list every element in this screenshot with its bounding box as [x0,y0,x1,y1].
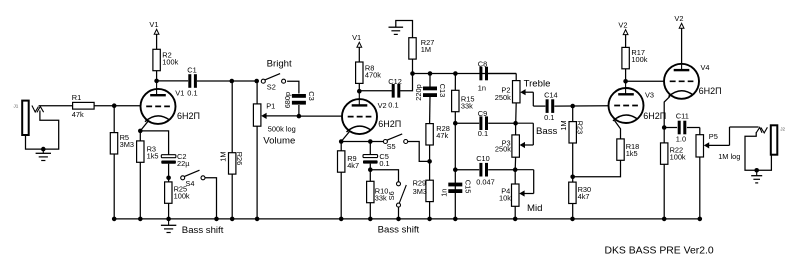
svg-text:680p: 680p [283,92,292,108]
junction C10 left node [453,167,458,172]
wire R18 to R30 node [573,160,621,177]
svg-text:S5: S5 [387,142,396,151]
resistor R22 [661,143,686,164]
svg-text:V1: V1 [352,33,361,42]
potentiometer P2 [495,81,534,107]
svg-text:R29: R29 [413,178,427,187]
svg-text:Bass shift: Bass shift [378,225,420,236]
wire P4 bottom to bus [514,206,516,219]
svg-text:C14: C14 [544,91,558,100]
junction P3 top node [513,121,518,126]
svg-text:250k: 250k [495,93,511,102]
junction P1 bus [255,217,260,222]
wire C13 to R28 [429,96,431,123]
svg-text:C9: C9 [478,109,487,118]
junction S5 tap node [427,159,432,164]
wire C9 to P3 node [488,122,515,124]
wire S4 to bus [205,178,217,219]
svg-text:220p: 220p [414,84,423,100]
svg-text:250k: 250k [495,145,511,154]
junction C5 top node [368,139,373,144]
resistor R29 [413,178,434,201]
junction S4 bus [214,217,219,222]
svg-text:0.1: 0.1 [544,113,554,122]
resistor R25 [165,182,190,203]
triode V4 [664,63,722,128]
svg-text:V1: V1 [149,20,158,29]
junction P4 bus [513,217,518,222]
power V2 supply for V4 [674,14,684,28]
wire C8 to P2 [488,73,516,75]
capacitor C1 [187,65,197,97]
wire V3 plate lead [625,81,627,94]
connector J2 jack [756,125,785,154]
svg-text:S2: S2 [267,83,276,92]
wire P3 wiper loop [516,122,534,124]
junction R29 bus [427,217,432,222]
wire C14 to V3 grid [554,105,608,107]
junction grid node V1 [112,103,117,108]
switch S6 [387,182,406,207]
resistor R18 [617,139,639,160]
svg-text:0.1: 0.1 [388,100,398,109]
svg-text:0.1: 0.1 [187,88,197,97]
svg-text:3M3: 3M3 [413,187,427,196]
junction J2 ground node [754,168,759,173]
label Bright [267,58,292,69]
wire V4 plate lead [681,64,683,70]
triode V3 [609,88,667,139]
resistor R26 1M [219,151,245,174]
svg-text:22µ: 22µ [177,159,190,168]
wire R9 branch [340,142,342,220]
wire P4 top stub [514,170,516,184]
wire plate node to C1 [157,80,189,82]
resistor R30 [569,182,591,203]
wire wiper node to V2 grid [299,115,342,117]
label title [605,246,714,257]
svg-text:0.1: 0.1 [478,129,488,138]
capacitor C12 [388,77,402,110]
potentiometer P3 [495,123,533,157]
resistor R27 [409,38,435,59]
resistor R3 [137,141,159,162]
resistor R28 [426,124,450,145]
svg-text:1k5: 1k5 [147,152,159,161]
wire R28 to bus via R29 [429,145,431,219]
junction rail node C13 [428,71,433,76]
svg-text:C12: C12 [388,77,402,86]
wire ground bus [114,218,700,220]
junction C15 bus [453,217,458,222]
svg-text:1k5: 1k5 [626,149,638,158]
wire P3 to P4 node [514,157,516,170]
wire S2 to C3 [287,81,299,93]
svg-text:Bass shift: Bass shift [182,225,224,236]
svg-text:1n: 1n [439,189,448,197]
ground main ground [161,225,176,232]
wire P5 wiper to J2 [730,126,759,128]
wire C3 to wiper node [298,105,300,116]
svg-text:DKS BASS PRE Ver2.0: DKS BASS PRE Ver2.0 [605,246,714,257]
wire stub [620,138,622,140]
svg-text:V4: V4 [701,63,710,72]
wire R27 to ground [396,21,413,38]
svg-text:500k log: 500k log [268,124,296,133]
resistor R10 [367,181,389,202]
wire R17 to V3 plate [625,69,627,82]
svg-text:C1: C1 [187,65,196,74]
connector J1 jack [14,101,44,135]
svg-text:1.0: 1.0 [676,135,686,144]
svg-text:V2: V2 [618,21,627,30]
capacitor C14 [544,91,558,123]
junction J1 ground node [41,147,46,152]
capacitor C13 220p [414,84,447,101]
wire R1 to V1 grid [94,105,141,107]
potentiometer P5 [0,0,730,157]
label Treble [524,79,551,90]
junction V3 grid node [570,104,575,109]
wire C11 to P5 [687,127,700,129]
junction V2 cathode node [339,139,344,144]
svg-text:Volume: Volume [263,136,295,147]
svg-text:1M: 1M [219,151,228,161]
wire V2 plate lead [358,91,360,105]
junction R30 top node [570,175,575,180]
svg-text:V3: V3 [645,91,654,100]
junction S6 bus [396,217,401,222]
wire rail to C9 [455,122,479,124]
junction rail node R15 [453,71,458,76]
svg-text:4k7: 4k7 [347,161,359,170]
resistor R17 [622,47,648,68]
wire C12 to top rail [400,74,412,91]
wire J1 tip to R1 [39,105,73,107]
ground R27 ground [389,27,404,34]
label Mid [527,203,542,214]
wire J1 ground stub [42,149,44,153]
wire P5 top stub [699,128,701,135]
wire supply to V4 plate [681,28,683,64]
label P5 [709,132,718,141]
junction R5 bus [112,217,117,222]
svg-text:4k7: 4k7 [578,192,590,201]
wire C1 to volume top [197,80,257,82]
wire rail to R15 [454,74,456,91]
wire R2 to plate node [156,71,158,81]
wire J2 ground stub [756,170,758,175]
junction R9 bus [339,217,344,222]
wire J1 sleeve loop [26,111,59,150]
svg-text:C10: C10 [476,154,490,163]
junction R10 bus [368,217,373,222]
wire R10 node to S6 [370,170,398,182]
capacitor C9 [478,109,488,138]
wire R23 to bus via R30 [572,143,574,219]
wire supply to R17 [625,35,627,48]
wire grid node to R23 [572,106,574,122]
label Volume [263,136,295,147]
svg-text:C13: C13 [438,84,447,98]
svg-text:C3: C3 [307,91,316,100]
svg-text:100k: 100k [631,55,647,64]
svg-text:C11: C11 [676,112,689,121]
resistor R15 [452,90,475,111]
svg-text:P1: P1 [266,101,275,110]
svg-text:R1: R1 [72,93,81,102]
svg-text:33k: 33k [375,193,387,202]
svg-text:C15: C15 [463,180,472,194]
svg-text:0.047: 0.047 [476,178,495,187]
svg-text:P5: P5 [709,132,718,141]
capacitor C2 [161,152,190,168]
wire cathode to C11 [664,127,677,129]
svg-text:47k: 47k [72,110,84,119]
triode V1 [140,88,200,131]
wire R8 to V2 plate node [358,83,360,91]
wire rail to C10 [455,169,479,171]
svg-text:V2: V2 [674,14,683,23]
junction V1 plate node [154,79,159,84]
wire C10 to P4 node [488,169,515,171]
switch S4 [181,170,205,188]
wire main ground stub [168,219,170,225]
junction P5 bus [698,217,703,222]
wire supply to R8 [358,47,360,62]
junction C9 left node [453,121,458,126]
capacitor C8 [478,59,488,92]
junction V2 plate node [357,89,362,94]
wire P1 bottom to bus [256,126,258,219]
ground output jack ground [751,176,762,183]
svg-text:0.1: 0.1 [379,159,389,168]
wire P4 wiper loop [515,169,534,171]
svg-text:J2: J2 [780,126,785,131]
resistor R23 1M [559,120,585,143]
junction V1 cathode node [138,129,143,134]
svg-text:C8: C8 [478,59,487,68]
wire C5 top stub [369,142,371,155]
junction ground node [166,217,171,222]
junction R3 bus [138,217,143,222]
resistor R5 [110,133,134,154]
svg-text:47k: 47k [436,131,448,140]
wire V1 plate lead [156,81,158,95]
wire C5 to bus via R10 [369,164,371,219]
wire P5 bottom to bus [699,157,701,219]
svg-text:1M log: 1M log [718,152,740,161]
svg-text:6Н2П: 6Н2П [699,86,722,96]
capacitor C5 [363,152,390,168]
svg-text:Bright: Bright [267,58,292,69]
wire tone stack top rail [413,73,517,75]
power V1 supply for R8 [352,33,362,47]
svg-text:1M: 1M [421,45,431,54]
svg-text:100k: 100k [670,152,686,161]
capacitor C11 [676,112,689,144]
svg-text:1M: 1M [559,120,568,130]
svg-text:100k: 100k [174,192,190,201]
svg-text:V1: V1 [175,88,184,97]
wire R22 branch [663,128,665,220]
junction R26 bus [230,217,235,222]
svg-text:R23: R23 [576,121,585,135]
wire P3 top stub [515,123,517,135]
svg-text:J1: J1 [14,103,19,108]
wire plate node to C12 [359,90,392,92]
junction R30 bus [570,217,575,222]
svg-text:6Н2П: 6Н2П [378,119,401,129]
triode V2 [341,99,401,141]
junction R22 bus [662,217,667,222]
potentiometer P4 [499,170,534,207]
power V1 supply for R2 [149,20,159,34]
resistor R9 [338,151,360,172]
wire V2 cathode rail [341,141,385,143]
svg-text:10k: 10k [499,194,511,203]
svg-text:6Н2П: 6Н2П [643,111,666,121]
svg-text:Treble: Treble [524,79,551,90]
capacitor C15 1n [439,180,472,197]
svg-text:R26: R26 [235,152,244,166]
junction R26 top node [230,79,235,84]
capacitor C10 [476,154,495,187]
resistor R8 [356,62,382,83]
label Bass shift 2 [378,225,420,236]
wire P2 wiper to C14 [533,105,545,107]
resistor R2 [153,49,179,70]
junction P4 top node [513,167,518,172]
wire C2 to bus via R25 [168,164,170,219]
resistor R1 [72,93,94,119]
svg-text:Mid: Mid [527,203,542,214]
junction P1 wiper node [297,114,302,119]
svg-text:1n: 1n [478,84,486,93]
wire P2 to P3 node [515,103,518,123]
svg-text:33k: 33k [461,101,473,110]
svg-text:S6: S6 [387,191,396,200]
svg-text:470k: 470k [365,70,381,79]
potentiometer P1 [253,101,299,133]
label 1M log [718,152,740,161]
wire supply to R2 [156,34,158,49]
junction volume top node [254,79,259,84]
svg-text:3M3: 3M3 [120,140,134,149]
wire R3 branch [139,131,141,219]
wire grid node to bus via R5 [113,106,115,219]
wire S6 to bus [398,207,400,219]
capacitor C3 680p [283,91,316,108]
wire volume top stub [256,81,258,104]
switch S5 [383,134,407,151]
label Bass shift 1 [182,225,224,236]
switch S2 [261,74,285,92]
wire left rail down [454,112,456,219]
wire rail to C13 [429,74,431,88]
junction V3 plate node [623,79,628,84]
junction V4 cathode node [662,125,667,130]
wire R27 to rail [412,59,414,73]
label Bass [536,126,558,137]
junction S4 tap node [166,176,171,181]
wire R26 branch [231,81,233,219]
svg-text:100k: 100k [162,58,178,67]
wire S5 to R29 tap [408,142,430,162]
svg-text:S4: S4 [185,179,194,188]
svg-text:Bass: Bass [536,126,558,137]
power V2 supply for R17 [618,21,628,35]
wire rail to P2 [515,74,517,81]
svg-text:6Н2П: 6Н2П [177,111,200,121]
svg-text:V2: V2 [378,101,387,110]
junction R10 top node [368,167,373,172]
ground input jack ground [36,153,51,160]
wire J2 sleeve loop [745,132,771,170]
wire V3 plate to V4 grid [626,80,665,82]
wire cathode to C2 [140,131,168,155]
junction rail node C12 [410,71,415,76]
